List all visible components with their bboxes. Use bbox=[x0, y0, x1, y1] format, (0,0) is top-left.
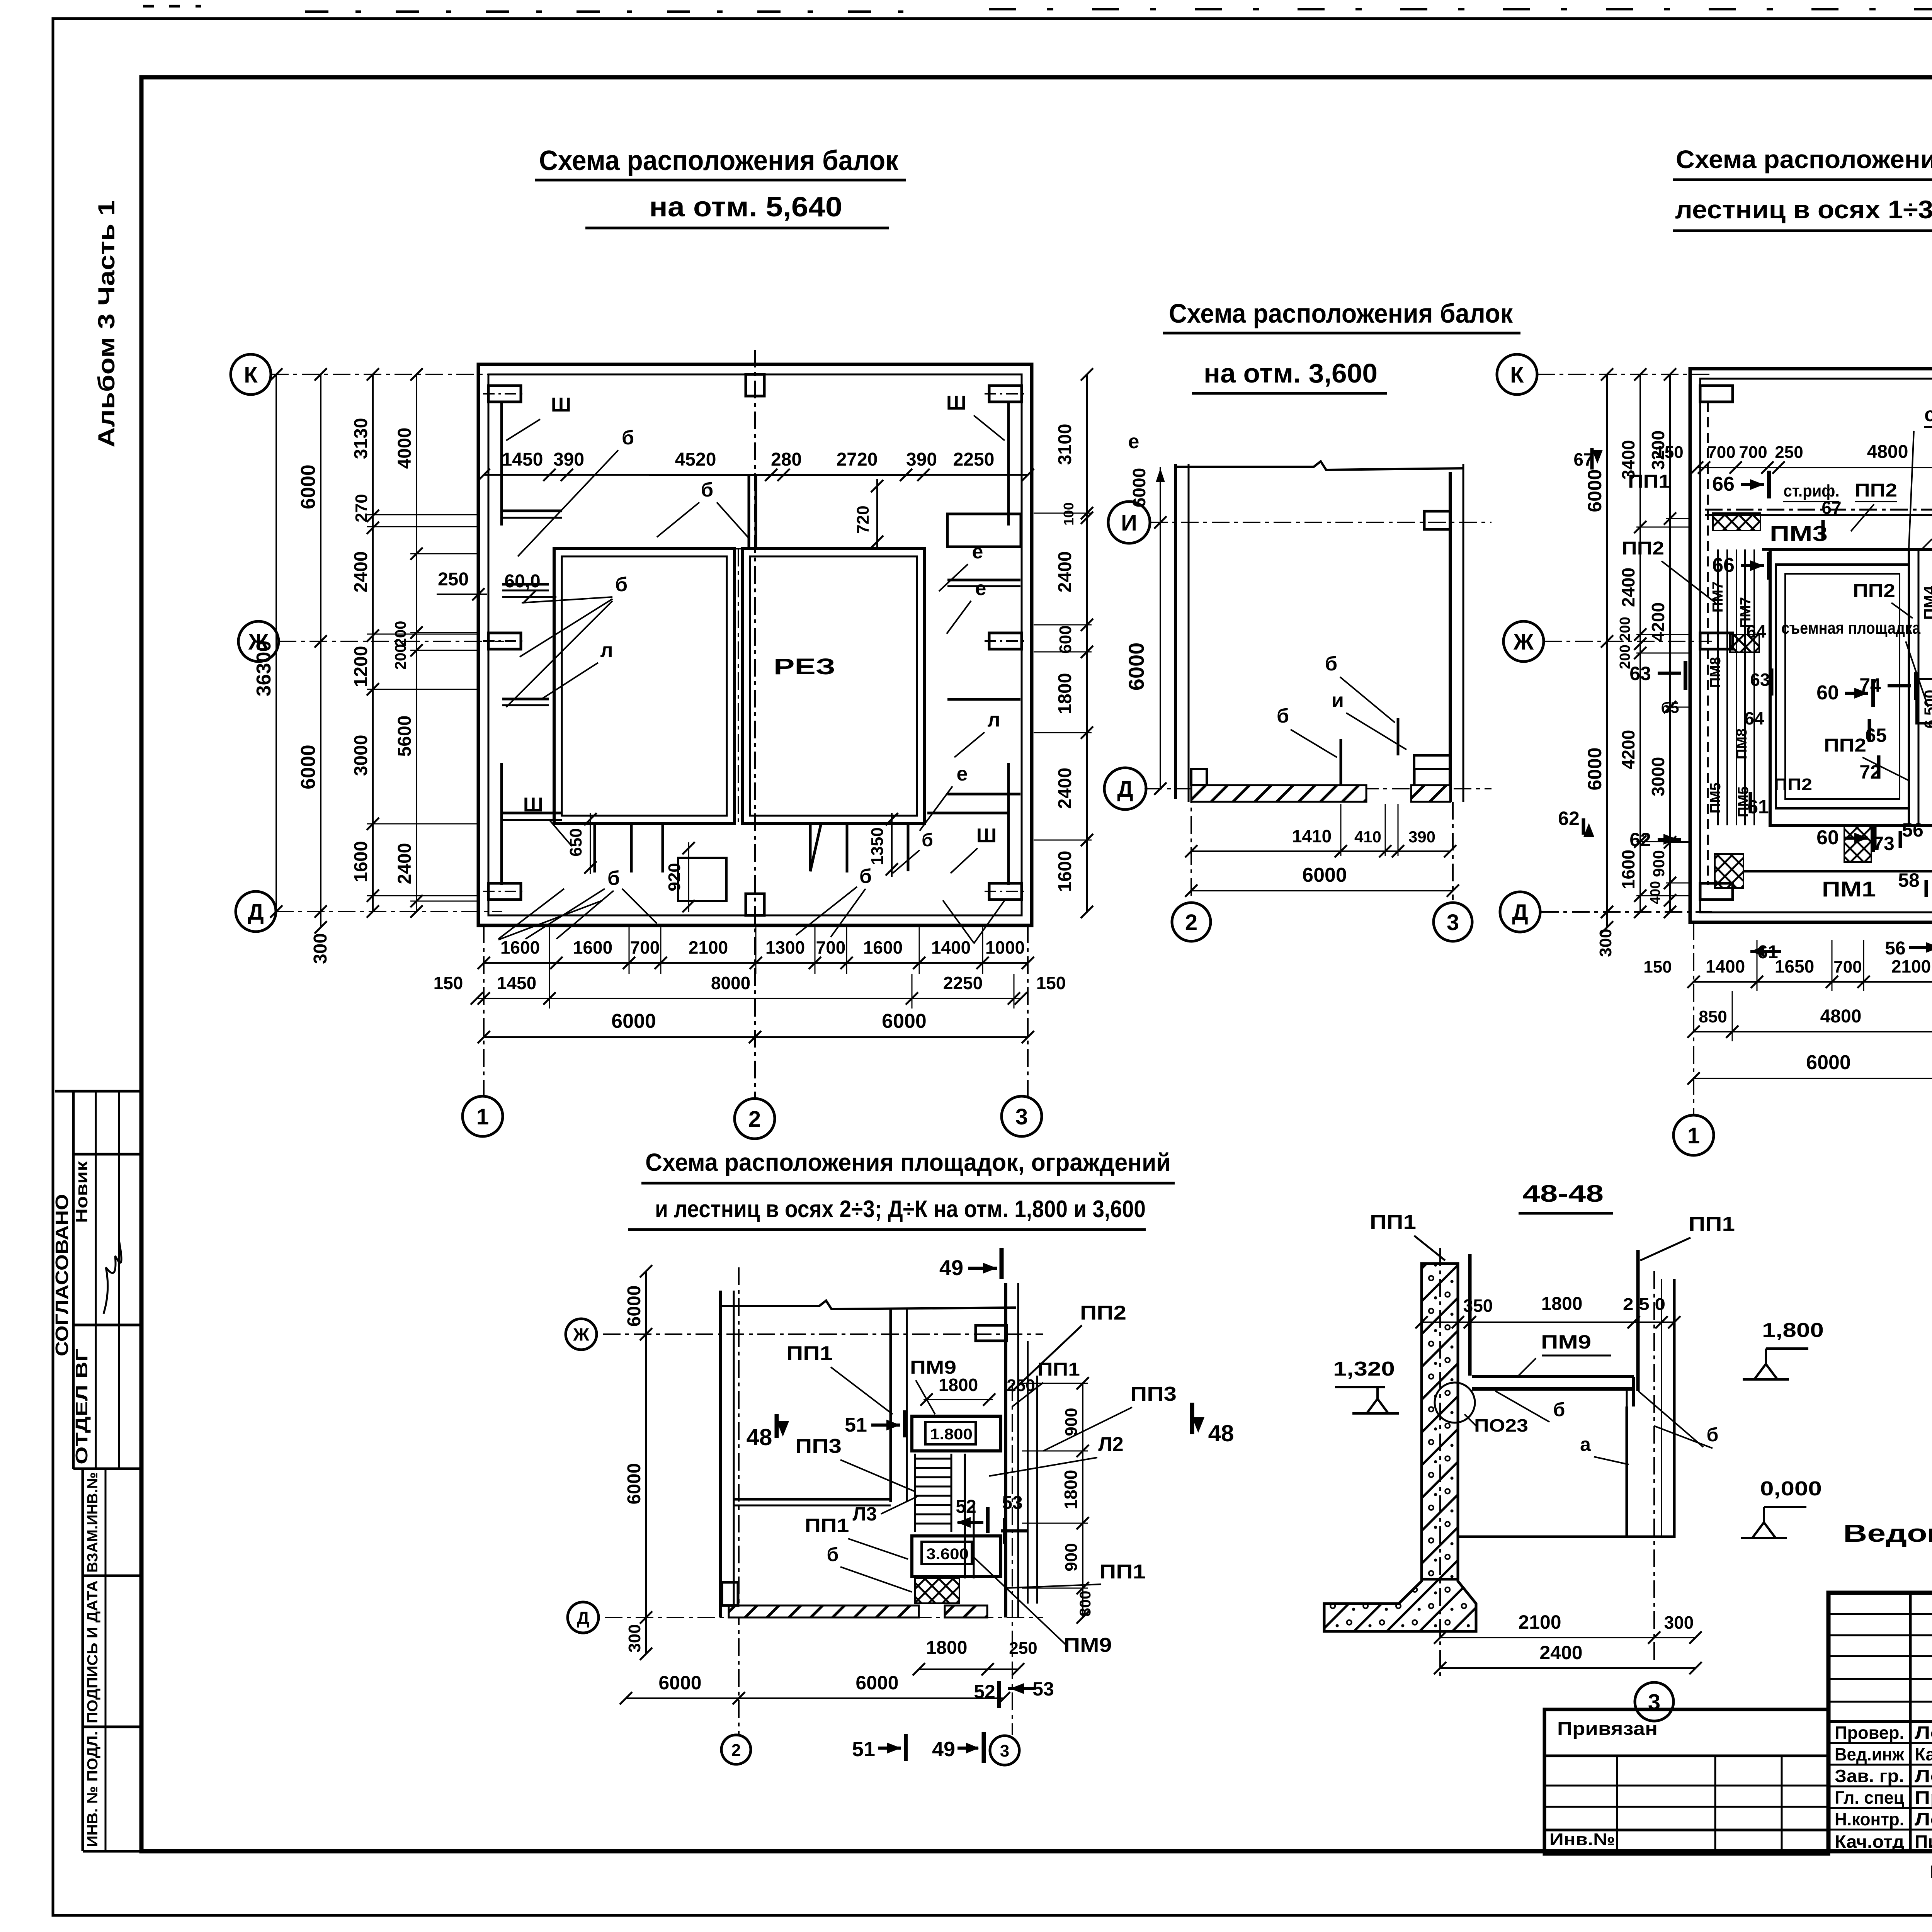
plan2 top dim chain bbox=[1697, 467, 1932, 468]
svg-text:2400: 2400 bbox=[1618, 568, 1638, 607]
svg-text:1600: 1600 bbox=[1618, 850, 1638, 889]
left zone beam at 2102 bbox=[502, 812, 562, 815]
svg-text:3000: 3000 bbox=[1648, 757, 1668, 796]
svg-text:1450: 1450 bbox=[497, 973, 536, 993]
svg-text:3400: 3400 bbox=[1618, 440, 1638, 480]
svg-text:Ш: Ш bbox=[523, 794, 543, 816]
sec platform double line bbox=[1472, 1375, 1634, 1378]
sec wall concrete hatched bbox=[1422, 1264, 1458, 1579]
svg-text:съемная площадка: съемная площадка bbox=[1924, 403, 1932, 426]
p3 left wall double bbox=[719, 1291, 722, 1617]
p3 axis Д line bbox=[605, 1617, 1043, 1618]
svg-text:1600: 1600 bbox=[351, 841, 371, 883]
axis circle Ж bbox=[238, 621, 279, 662]
svg-text:К: К bbox=[244, 362, 258, 388]
dim chain right fine bbox=[1086, 374, 1088, 912]
svg-text:2250: 2250 bbox=[943, 973, 983, 993]
plan1 bottom chain fine bbox=[484, 962, 1028, 964]
svg-text:съемная площадка: съемная площадка bbox=[1781, 619, 1920, 638]
svg-text:48: 48 bbox=[747, 1424, 772, 1450]
pilaster top-right bbox=[989, 386, 1022, 402]
svg-text:250: 250 bbox=[1009, 1639, 1037, 1658]
sec platform right seat bbox=[1632, 1377, 1635, 1406]
left zone beam at 1510 bbox=[502, 583, 549, 586]
svg-text:Привязан: Привязан bbox=[1557, 1719, 1658, 1739]
svg-text:1650: 1650 bbox=[1775, 956, 1814, 976]
svg-text:б: б bbox=[1707, 1424, 1719, 1446]
p3 axis 3 vertical bbox=[1012, 1383, 1013, 1735]
svg-text:Пронин: Пронин bbox=[1915, 1787, 1932, 1808]
svg-text:2100: 2100 bbox=[1891, 956, 1931, 976]
svg-text:6000: 6000 bbox=[882, 1010, 927, 1032]
svg-text:ПМ7: ПМ7 bbox=[1710, 582, 1726, 612]
svg-text:Ш: Ш bbox=[551, 394, 571, 416]
right zone beam box bottom bbox=[927, 812, 1008, 815]
svg-text:б: б bbox=[1325, 653, 1337, 675]
svg-text:ПМ8: ПМ8 bbox=[1708, 657, 1724, 688]
plan2 axis circle Ж bbox=[1503, 621, 1544, 662]
svg-text:2: 2 bbox=[1185, 910, 1197, 935]
svg-text:1800: 1800 bbox=[926, 1638, 968, 1658]
svg-text:4200: 4200 bbox=[1618, 730, 1638, 769]
svg-text:6000: 6000 bbox=[611, 1010, 656, 1032]
plan2 bottom chain 6000 bbox=[1694, 1078, 1932, 1079]
mid floor hatched strip 2 bbox=[1411, 785, 1450, 802]
svg-text:ПП2: ПП2 bbox=[1080, 1302, 1126, 1324]
mid axis И line bbox=[1150, 522, 1492, 523]
p3 floor right patch bbox=[945, 1605, 987, 1617]
svg-text:лестниц в осях 1÷3; Д÷К на отм: лестниц в осях 1÷3; Д÷К на отм. 5,800; 6… bbox=[1675, 195, 1932, 224]
svg-text:200: 200 bbox=[392, 644, 409, 670]
svg-text:51: 51 bbox=[845, 1414, 867, 1436]
p3 left dim 6000 rot a bbox=[645, 1271, 647, 1654]
svg-text:6000: 6000 bbox=[624, 1463, 645, 1505]
svg-text:4000: 4000 bbox=[395, 428, 415, 469]
right zone beam at 1501 bbox=[947, 579, 1020, 582]
mid floor hatched strip bbox=[1191, 785, 1366, 802]
p3 column circle 3 bbox=[990, 1736, 1019, 1765]
svg-text:36300: 36300 bbox=[253, 641, 275, 697]
p3 right wall stub bbox=[976, 1325, 1007, 1341]
axis Ж line bbox=[279, 641, 504, 642]
mid left floor stub bbox=[1191, 769, 1207, 785]
plan2 tank left inner bbox=[1776, 565, 1909, 808]
svg-text:ПП3: ПП3 bbox=[1130, 1383, 1177, 1405]
svg-text:ПП1: ПП1 bbox=[1689, 1213, 1735, 1235]
svg-text:390: 390 bbox=[553, 449, 584, 470]
svg-text:390: 390 bbox=[906, 449, 937, 470]
svg-text:Новик: Новик bbox=[72, 1161, 91, 1223]
bottom arrow protrusion bbox=[810, 823, 821, 871]
svg-text:2100: 2100 bbox=[1518, 1611, 1561, 1633]
svg-text:390: 390 bbox=[1408, 828, 1435, 846]
svg-text:6000: 6000 bbox=[297, 745, 320, 789]
sec post a vertical bbox=[1626, 1406, 1628, 1537]
svg-text:Левина: Левина bbox=[1915, 1766, 1932, 1786]
extension lines plan1 right chain bbox=[1034, 513, 1092, 514]
mid axis Д line bbox=[1145, 788, 1492, 789]
right zone beam at 2055 bbox=[947, 793, 1020, 796]
mid post б1 bbox=[1340, 739, 1342, 785]
svg-text:6000: 6000 bbox=[1129, 468, 1149, 507]
svg-text:Вед.инж: Вед.инж bbox=[1835, 1744, 1904, 1764]
plan1 920 box bbox=[678, 858, 726, 901]
svg-text:и: и bbox=[1332, 689, 1344, 712]
svg-text:б: б bbox=[859, 865, 872, 888]
p3 inner horizontal wall bbox=[734, 1498, 891, 1501]
svg-text:И: И bbox=[1121, 510, 1137, 536]
plan2 hatch mid-left at Ж bbox=[1730, 634, 1759, 652]
svg-text:900: 900 bbox=[1650, 850, 1668, 877]
axis circle Д bbox=[236, 891, 276, 932]
plan2 central stair shaft bbox=[1908, 549, 1910, 825]
p3 axis Ж line bbox=[603, 1333, 1043, 1335]
svg-text:52: 52 bbox=[956, 1497, 976, 1517]
svg-text:100: 100 bbox=[1061, 502, 1077, 526]
p3 floor hatched strip bbox=[729, 1605, 919, 1617]
svg-text:1,320: 1,320 bbox=[1333, 1358, 1395, 1380]
svg-text:б: б bbox=[607, 867, 620, 889]
title block outer bbox=[1828, 1593, 1932, 1851]
svg-text:2400: 2400 bbox=[1055, 768, 1075, 809]
svg-text:6000: 6000 bbox=[297, 464, 320, 509]
svg-text:ПМ9: ПМ9 bbox=[1541, 1331, 1591, 1353]
svg-text:б: б bbox=[622, 427, 634, 449]
svg-text:8000: 8000 bbox=[711, 973, 750, 993]
plan2 axis stubs below bbox=[1693, 922, 1694, 1115]
svg-text:48-48: 48-48 bbox=[1522, 1180, 1604, 1207]
svg-text:800: 800 bbox=[1077, 1591, 1094, 1617]
left stamp table A bbox=[55, 1091, 141, 1469]
mid axis 3 stub bbox=[1452, 802, 1454, 900]
title underline p3 bbox=[641, 1182, 1175, 1185]
svg-text:3: 3 bbox=[1015, 1104, 1028, 1129]
inner dashdot horizontals top bbox=[554, 548, 925, 549]
svg-text:600: 600 bbox=[1056, 625, 1075, 653]
extension lines plan2 bottom chains bbox=[1757, 940, 1758, 991]
svg-text:Инв.№: Инв.№ bbox=[1549, 1830, 1615, 1849]
svg-text:РЕЗ: РЕЗ bbox=[774, 654, 835, 679]
svg-text:1600: 1600 bbox=[500, 937, 540, 957]
svg-text:ПП1: ПП1 bbox=[1099, 1561, 1146, 1583]
svg-text:е: е bbox=[957, 763, 968, 785]
pilaster mid-left at Ж bbox=[488, 633, 521, 649]
svg-text:66: 66 bbox=[1712, 554, 1735, 577]
right zone beam at 1810 bbox=[947, 698, 1020, 701]
axis circle Д mid bbox=[1104, 768, 1146, 810]
plan2 axis circle К bbox=[1497, 354, 1537, 395]
svg-text:60,0: 60,0 bbox=[504, 571, 540, 592]
svg-text:51: 51 bbox=[852, 1738, 875, 1761]
svg-text:ПП1: ПП1 bbox=[786, 1342, 833, 1365]
plan2 bottom chain 2 bbox=[1694, 1031, 1932, 1032]
svg-text:Л3: Л3 bbox=[853, 1503, 877, 1525]
plan1 tank right (double rect) bbox=[742, 549, 925, 823]
svg-text:250: 250 bbox=[438, 569, 469, 590]
dim chain left fine bbox=[372, 374, 374, 912]
svg-text:Альбом 3 Часть 1: Альбом 3 Часть 1 bbox=[94, 200, 119, 447]
svg-text:300: 300 bbox=[625, 1624, 644, 1652]
svg-text:1: 1 bbox=[1687, 1123, 1700, 1148]
svg-text:6000: 6000 bbox=[1124, 643, 1148, 691]
svg-text:4800: 4800 bbox=[1820, 1006, 1862, 1027]
pilaster bottom-right bbox=[989, 883, 1022, 900]
svg-text:Схема расположения балок: Схема расположения балок bbox=[539, 145, 899, 176]
svg-text:ПП1: ПП1 bbox=[1037, 1359, 1080, 1380]
svg-text:1800: 1800 bbox=[939, 1375, 978, 1395]
stair label 6.500 box bbox=[1917, 679, 1932, 723]
svg-text:62: 62 bbox=[1558, 808, 1580, 829]
sec wall axis line bbox=[1439, 1248, 1441, 1677]
svg-text:1200: 1200 bbox=[351, 646, 371, 687]
svg-text:ПП1: ПП1 bbox=[1370, 1211, 1416, 1233]
signature squiggle bbox=[104, 1240, 121, 1314]
column circle 2 bbox=[735, 1099, 775, 1139]
svg-text:4800: 4800 bbox=[1867, 442, 1908, 462]
right zone room e box bbox=[947, 514, 1021, 547]
svg-text:ПО23: ПО23 bbox=[1474, 1415, 1528, 1435]
svg-text:ПМ5: ПМ5 bbox=[1708, 782, 1724, 813]
svg-text:ПП1: ПП1 bbox=[805, 1515, 849, 1536]
svg-text:2100: 2100 bbox=[689, 937, 728, 957]
svg-text:2400: 2400 bbox=[1539, 1642, 1582, 1663]
plan2 top platform band lines bbox=[1705, 514, 1932, 516]
p3 landing 3.600 box bbox=[912, 1536, 1001, 1577]
svg-text:Ш: Ш bbox=[976, 825, 997, 847]
svg-text:ВЗАМ.ИНВ.№: ВЗАМ.ИНВ.№ bbox=[85, 1472, 101, 1573]
privyazan table bbox=[1544, 1709, 1828, 1854]
beam Ш right wall inner line bbox=[1007, 403, 1010, 526]
extension lines plan2 left chains bbox=[1636, 527, 1692, 528]
svg-text:2400: 2400 bbox=[351, 551, 371, 593]
svg-text:300: 300 bbox=[310, 933, 331, 964]
svg-text:350: 350 bbox=[1463, 1296, 1493, 1316]
svg-text:1600: 1600 bbox=[1055, 851, 1075, 892]
svg-text:6000: 6000 bbox=[658, 1672, 701, 1694]
title underline 2 bbox=[585, 227, 889, 230]
plan2 outer wall bbox=[1690, 369, 1932, 922]
sec circle 3 bbox=[1635, 1682, 1673, 1721]
bottom stub pair at 2350 bbox=[907, 823, 910, 871]
sec floor line bbox=[1458, 1536, 1674, 1538]
svg-text:200: 200 bbox=[1617, 617, 1633, 641]
svg-text:3: 3 bbox=[1000, 1742, 1009, 1760]
svg-text:66: 66 bbox=[1712, 473, 1735, 495]
mid post б2 bbox=[1397, 718, 1400, 755]
sec left post bbox=[1468, 1254, 1472, 1376]
svg-text:2: 2 bbox=[731, 1741, 741, 1760]
p3 column circle 2 bbox=[721, 1735, 751, 1764]
svg-text:0,000: 0,000 bbox=[1760, 1478, 1822, 1500]
svg-text:700: 700 bbox=[1707, 443, 1735, 462]
left stamp table B bbox=[83, 1469, 141, 1851]
svg-text:л: л bbox=[600, 639, 613, 662]
extension lines mid bottom bbox=[1340, 804, 1342, 856]
svg-text:л: л bbox=[987, 709, 1000, 731]
column circle 3 mid bbox=[1434, 903, 1472, 941]
plan2 axis Ж line bbox=[1544, 641, 1712, 642]
mid bottom dim line 1 bbox=[1191, 850, 1450, 852]
svg-text:6000: 6000 bbox=[1302, 864, 1347, 886]
svg-text:6000: 6000 bbox=[855, 1672, 898, 1694]
svg-text:Ш: Ш bbox=[946, 392, 966, 414]
svg-text:150: 150 bbox=[434, 973, 463, 993]
svg-text:400: 400 bbox=[1647, 881, 1663, 904]
title underline p2-2 bbox=[1673, 230, 1932, 232]
svg-text:Зав. гр.: Зав. гр. bbox=[1835, 1766, 1904, 1786]
svg-text:ПМ1: ПМ1 bbox=[1822, 877, 1876, 901]
svg-text:СОГЛАСОВАНО: СОГЛАСОВАНО bbox=[52, 1194, 72, 1356]
plan2 hatch bottom-left corner bbox=[1715, 854, 1743, 888]
section title underline bbox=[1519, 1212, 1613, 1215]
svg-text:1800: 1800 bbox=[1055, 673, 1075, 714]
svg-text:150: 150 bbox=[1655, 443, 1683, 462]
bottom-right corner fan leaders bbox=[943, 900, 974, 943]
svg-text:49: 49 bbox=[932, 1738, 955, 1761]
svg-text:1600: 1600 bbox=[573, 937, 612, 957]
p3 ПП1 panel lines right of wall bbox=[1027, 1341, 1029, 1604]
column stub bottom at axis 2 bbox=[746, 894, 764, 915]
svg-text:1: 1 bbox=[476, 1104, 489, 1129]
svg-text:б: б bbox=[701, 479, 713, 501]
svg-text:53: 53 bbox=[1032, 1678, 1054, 1700]
p3 stair treads bbox=[915, 1458, 951, 1460]
svg-text:250: 250 bbox=[1775, 443, 1803, 462]
mid view top edge with break bbox=[1175, 461, 1463, 470]
p3 axis circle Ж bbox=[566, 1319, 597, 1350]
svg-text:3000: 3000 bbox=[351, 735, 371, 776]
svg-text:б: б bbox=[1277, 705, 1289, 727]
tank centre divider dashdot bbox=[738, 549, 739, 823]
svg-text:200: 200 bbox=[1617, 645, 1633, 669]
svg-text:720: 720 bbox=[854, 505, 872, 534]
svg-text:ПМ8: ПМ8 bbox=[1734, 728, 1750, 759]
pilaster bottom-left bbox=[488, 883, 521, 900]
svg-text:150: 150 bbox=[1643, 957, 1672, 976]
plan2 hatch top-left bbox=[1713, 513, 1760, 531]
svg-text:Л2: Л2 bbox=[1098, 1433, 1123, 1456]
svg-text:1600: 1600 bbox=[863, 937, 903, 957]
svg-text:ПП3: ПП3 bbox=[795, 1435, 842, 1458]
plan2 top walkway line dashdot bbox=[1705, 509, 1932, 511]
svg-text:700: 700 bbox=[1833, 957, 1862, 976]
svg-text:63: 63 bbox=[1750, 670, 1770, 690]
svg-text:Письман: Письман bbox=[1915, 1832, 1932, 1852]
axis К line bbox=[271, 374, 502, 375]
sec right post bbox=[1636, 1250, 1640, 1391]
p3 left floor stub bbox=[722, 1582, 738, 1605]
svg-text:Ж: Ж bbox=[1513, 629, 1534, 655]
svg-text:4200: 4200 bbox=[1648, 602, 1668, 642]
svg-text:2720: 2720 bbox=[837, 449, 878, 470]
svg-text:е: е bbox=[1128, 430, 1139, 453]
sec axis 3 dashdot bbox=[1653, 1271, 1655, 1662]
axis 2 line vertical bbox=[754, 350, 756, 1099]
title underline mid2 bbox=[1192, 392, 1387, 395]
svg-text:Капустин: Капустин bbox=[1915, 1744, 1932, 1764]
column circle 2 mid bbox=[1172, 903, 1211, 941]
p3 hatch square bbox=[915, 1578, 959, 1603]
plan2 left strip verticals bbox=[1717, 549, 1719, 825]
plan2 column circle 1 bbox=[1673, 1115, 1714, 1155]
svg-text:2: 2 bbox=[748, 1107, 761, 1132]
svg-text:б: б bbox=[922, 830, 933, 850]
svg-text:Левина: Левина bbox=[1915, 1723, 1932, 1743]
axis Д line bbox=[276, 911, 502, 912]
mid view left wall bbox=[1174, 464, 1177, 799]
mid bottom dim line 2 bbox=[1191, 890, 1453, 891]
column circle 3 bbox=[1002, 1096, 1042, 1136]
title block vertical lines left part bbox=[1909, 1593, 1912, 1851]
svg-text:1000: 1000 bbox=[985, 937, 1025, 957]
svg-text:1,800: 1,800 bbox=[1762, 1319, 1824, 1342]
svg-text:3: 3 bbox=[1447, 910, 1459, 935]
svg-text:ПМ3: ПМ3 bbox=[1770, 521, 1828, 546]
mid view right wall bbox=[1449, 472, 1452, 802]
top inner beam line across bbox=[649, 474, 923, 476]
mid right bracket bbox=[1414, 755, 1450, 769]
extension lines plan1 bottom chains bbox=[549, 927, 550, 974]
svg-text:Схема расположения площадок, о: Схема расположения площадок, ограждений … bbox=[1676, 145, 1932, 173]
svg-text:1410: 1410 bbox=[1292, 826, 1332, 846]
svg-text:2400: 2400 bbox=[395, 843, 415, 884]
plan1 outer wall (double line) bbox=[478, 364, 1032, 925]
svg-text:Д: Д bbox=[1512, 900, 1528, 925]
beam Ш right bottom inner line bbox=[1007, 763, 1010, 885]
left zone beam at 1807 bbox=[502, 698, 549, 701]
svg-text:64: 64 bbox=[1744, 708, 1764, 728]
svg-text:280: 280 bbox=[771, 449, 802, 470]
svg-text:74: 74 bbox=[1859, 674, 1881, 696]
extension lines p3 right chain bbox=[1022, 1383, 1088, 1384]
svg-text:64: 64 bbox=[1746, 621, 1766, 641]
svg-text:920: 920 bbox=[665, 863, 684, 891]
svg-text:5600: 5600 bbox=[395, 716, 415, 757]
svg-text:2250: 2250 bbox=[953, 449, 995, 470]
p3 right dim chain bbox=[1082, 1383, 1083, 1617]
p3 inner vertical wall bbox=[889, 1309, 892, 1502]
svg-text:1400: 1400 bbox=[931, 937, 971, 957]
scan noise dashes top bbox=[305, 10, 927, 13]
svg-text:ОТДЕЛ ВГ: ОТДЕЛ ВГ bbox=[72, 1349, 91, 1464]
svg-text:60: 60 bbox=[1816, 682, 1839, 704]
dim chain left fine 2 bbox=[416, 374, 417, 912]
svg-text:56: 56 bbox=[1885, 938, 1905, 959]
svg-text:6000: 6000 bbox=[1584, 469, 1605, 512]
svg-text:6000: 6000 bbox=[1584, 747, 1605, 790]
svg-text:Гл. спец: Гл. спец bbox=[1835, 1787, 1904, 1808]
sec bottom dims bbox=[1440, 1637, 1696, 1638]
plan1 tank left (double rect) bbox=[554, 549, 735, 823]
svg-text:49: 49 bbox=[939, 1255, 963, 1280]
p3 axis circle Д bbox=[568, 1602, 599, 1633]
svg-text:Схема расположения балок: Схема расположения балок bbox=[1169, 298, 1513, 328]
mid vertical dim 6000 with arrow bbox=[1160, 467, 1161, 789]
svg-text:150: 150 bbox=[1036, 973, 1066, 993]
svg-text:б: б bbox=[615, 573, 628, 596]
svg-text:850: 850 bbox=[1699, 1007, 1727, 1026]
plan1 bottom chain 2 bbox=[477, 998, 1021, 999]
svg-text:700: 700 bbox=[816, 937, 846, 957]
sec right wall lines bbox=[1673, 1279, 1676, 1538]
plan2 axis circle Д bbox=[1500, 892, 1540, 932]
title block row line above personnel bbox=[1828, 1720, 1932, 1723]
plan2 dim chain 6000 left bbox=[1606, 374, 1608, 927]
svg-text:К: К bbox=[1510, 362, 1524, 388]
svg-text:53: 53 bbox=[1002, 1493, 1022, 1513]
svg-text:б: б bbox=[827, 1544, 839, 1565]
plan2 dim chain left fine2 bbox=[1669, 374, 1671, 912]
